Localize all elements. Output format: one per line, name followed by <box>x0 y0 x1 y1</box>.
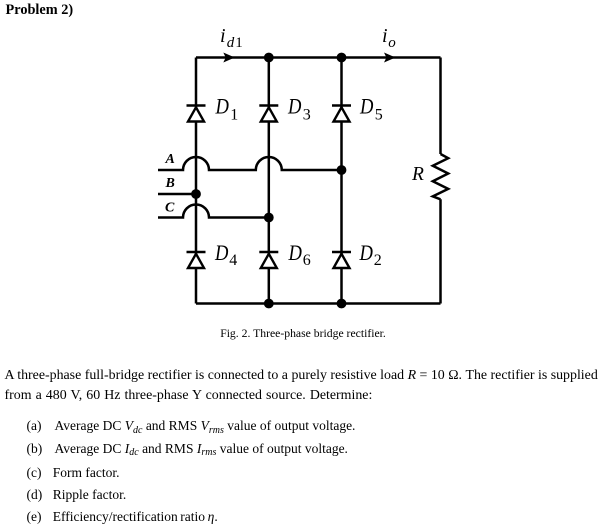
svg-text:B: B <box>165 176 175 191</box>
svg-text:i: i <box>382 25 388 47</box>
svg-text:A: A <box>165 152 175 167</box>
svg-text:R: R <box>411 164 424 185</box>
svg-text:C: C <box>165 201 175 216</box>
svg-text:D: D <box>359 240 373 265</box>
svg-text:i: i <box>220 25 226 47</box>
svg-text:1: 1 <box>230 106 238 123</box>
svg-text:2: 2 <box>374 252 382 269</box>
svg-text:D: D <box>215 94 229 119</box>
svg-text:1: 1 <box>235 35 243 51</box>
svg-text:4: 4 <box>229 252 237 269</box>
svg-text:D: D <box>359 94 373 119</box>
svg-text:o: o <box>388 35 396 51</box>
svg-text:3: 3 <box>303 106 311 123</box>
svg-text:d: d <box>227 35 235 51</box>
svg-text:D: D <box>287 94 301 119</box>
svg-text:6: 6 <box>303 252 311 269</box>
svg-text:D: D <box>214 240 228 265</box>
svg-text:D: D <box>288 240 302 265</box>
svg-text:5: 5 <box>375 106 383 123</box>
